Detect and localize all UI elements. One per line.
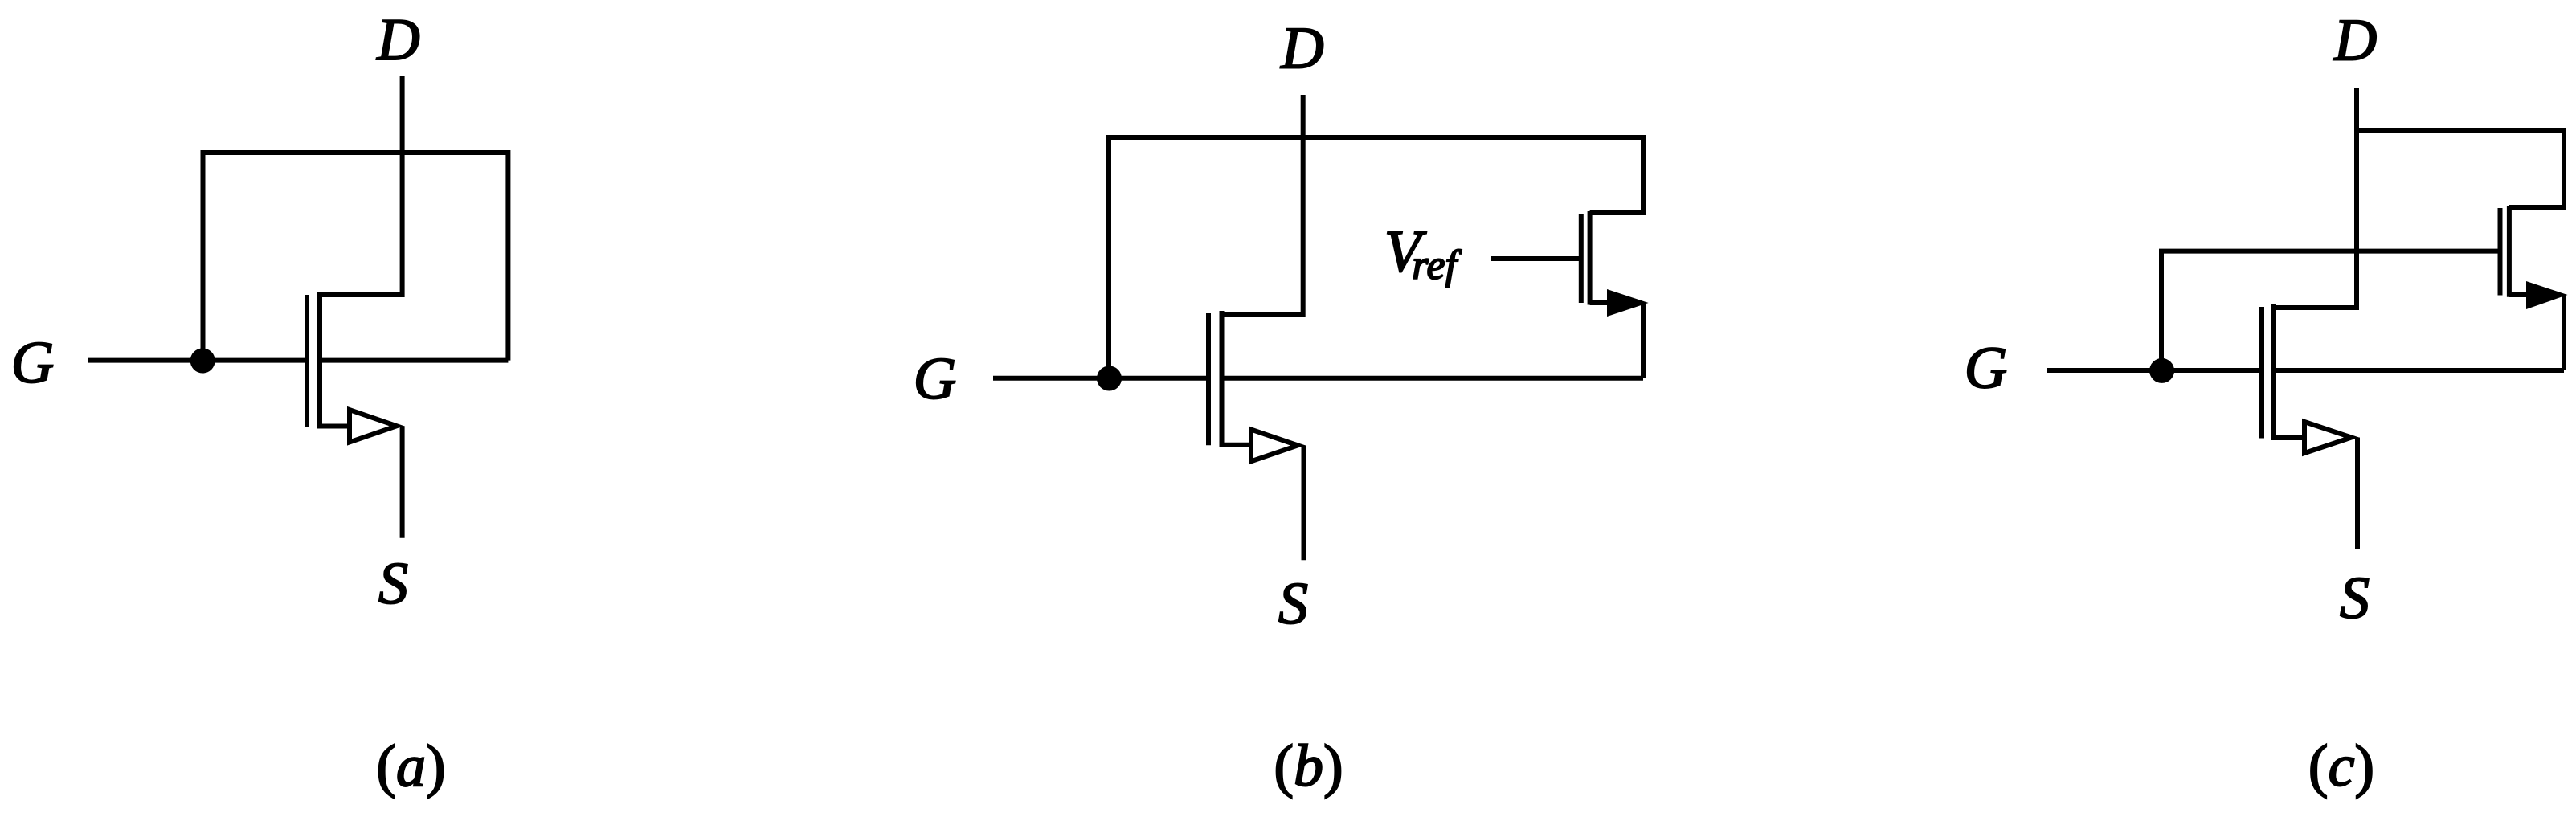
svg-text:(c): (c) [2308, 733, 2374, 799]
svg-text:G: G [1965, 336, 2007, 402]
wire: Vref gate lead of M2b [1491, 256, 1581, 261]
wire: body terminal of M1a to right loop [320, 358, 508, 363]
wire: gate lead from G (b) [993, 376, 1209, 381]
svg-text:G: G [11, 330, 54, 396]
wire: source lead down to S [400, 426, 405, 538]
node: gate junction dot (c) [2149, 358, 2174, 383]
wire: drain lead D down to channel top of M1c [2276, 88, 2357, 308]
transistor M1a channel bar [320, 292, 347, 427]
svg-text:D: D [376, 7, 419, 73]
source arrow of M1a (open triangle) [347, 406, 404, 446]
transistor M1b channel bar [1222, 311, 1249, 445]
wire: source stub of M2b [1590, 300, 1609, 305]
transistor M1c channel bar [2274, 304, 2302, 438]
svg-text:(b): (b) [1274, 733, 1343, 799]
wire: M2b source down to body line [1641, 303, 1646, 378]
wire: drain lead D down to channel top of M1b [1224, 95, 1303, 315]
svg-text:D: D [1280, 16, 1323, 82]
node: gate junction dot (b) [1097, 366, 1122, 391]
wire: source lead down to S (c) [2355, 438, 2360, 549]
source arrow of M1b (open triangle) [1249, 426, 1306, 464]
source arrow of M1c (open triangle) [2302, 419, 2359, 457]
svg-text:S: S [378, 551, 408, 617]
wire: drain lead D down to channel top of M1a [322, 76, 403, 295]
wire: body line of M1b [1221, 376, 1643, 381]
svg-text:D: D [2333, 8, 2377, 74]
transistor M1a gate bar [305, 295, 309, 427]
svg-text:S: S [1278, 571, 1308, 637]
wire: gate-to-body loop (left riser, top, right drop) [203, 153, 509, 361]
wire: gate lead from G (c) [2047, 368, 2262, 373]
transistor M2b channel bar [1588, 211, 1593, 305]
svg-text:G: G [914, 346, 956, 412]
wire: body line of M1c [2274, 368, 2564, 373]
wire: gate riser and gate lead of M2c [2161, 251, 2500, 370]
svg-text:S: S [2340, 566, 2370, 631]
wire: source lead down to S (b) [1302, 445, 1306, 560]
source arrow of M2b (filled) [1607, 289, 1649, 317]
transistor M1b gate bar [1206, 313, 1211, 445]
transistor M1c gate bar [2259, 307, 2264, 439]
wire: D to M2c drain (top run, right drop, drain stub) [2357, 130, 2564, 207]
source arrow of M2c (filled) [2526, 281, 2568, 309]
wire: M2c source down to body line [2562, 295, 2566, 370]
wire: source stub of M2c [2509, 292, 2528, 297]
transistor M2b gate bar [1579, 214, 1584, 303]
node: gate junction dot (a) [190, 349, 215, 374]
wire: gate lead from G [88, 358, 307, 363]
transistor M2c channel bar [2507, 206, 2512, 297]
wire: gate riser, top run, drop to M2b drain stub [1109, 137, 1643, 378]
transistor M2c gate bar [2498, 208, 2503, 296]
svg-text:(a): (a) [376, 733, 445, 799]
